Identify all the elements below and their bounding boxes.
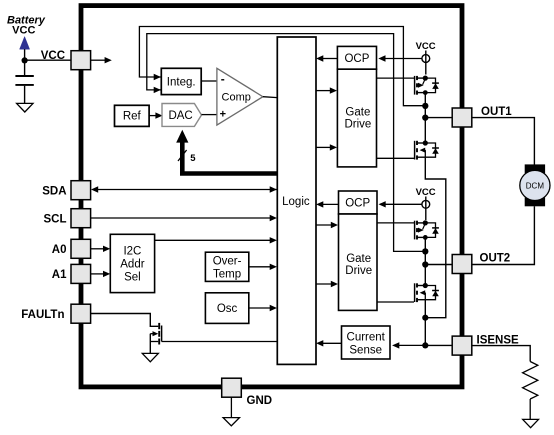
svg-text:Gate: Gate [346, 253, 371, 265]
block Ref [115, 105, 150, 126]
node sense rail junction [422, 315, 428, 321]
svg-text:SCL: SCL [44, 213, 67, 225]
svg-text:SDA: SDA [42, 185, 66, 197]
bus Logic to DAC (thick) [182, 142, 277, 174]
block Integ [161, 68, 201, 94]
motor brush bottom [525, 197, 545, 206]
ground (FAULTn) [142, 353, 158, 361]
ground (battery) [17, 103, 33, 112]
block Logic [277, 37, 316, 364]
pin A1 [71, 264, 91, 283]
node M3 source [423, 235, 428, 240]
wire ISENSE node to pin [425, 344, 452, 346]
svg-text:Sense: Sense [349, 344, 382, 356]
pin A0 [71, 239, 91, 258]
supply arrow (battery VCC) [20, 37, 30, 50]
svg-text:Over-: Over- [213, 255, 242, 267]
wire Q5 body arrow [150, 333, 153, 335]
node OUT2 junction [422, 261, 428, 267]
diode D2 (M2 body) [425, 143, 435, 157]
svg-text:VCC: VCC [416, 41, 436, 52]
svg-text:VCC: VCC [416, 187, 436, 198]
wire Q5 source [150, 341, 158, 343]
arrow into Integ input 2 [154, 87, 161, 93]
svg-text:Sel: Sel [124, 272, 141, 284]
diode D3 (M3 body) [425, 223, 435, 238]
wire to OUT2 pin [425, 264, 452, 266]
arrow into Integ input 1 [154, 74, 161, 80]
arrow Ref to DAC [149, 115, 156, 117]
wire GateDrive1 to M1 gate [377, 77, 415, 79]
wire Comp to Logic [263, 96, 277, 99]
wire GND pin to ground [230, 397, 232, 417]
node A (VCC net junction) [22, 57, 28, 63]
pin OUT1 [452, 108, 472, 127]
svg-text:DCM: DCM [526, 181, 545, 190]
svg-text:OUT1: OUT1 [481, 106, 512, 118]
node M1 drain [423, 76, 428, 81]
wire M1 source to M2 drain [424, 93, 426, 143]
block DAC [162, 104, 202, 127]
svg-text:Drive: Drive [344, 119, 371, 131]
wire A1 to I2C [91, 273, 105, 275]
wire SCL to Logic [91, 217, 271, 219]
node M1 source [423, 90, 428, 95]
transistor M1 (high-side OUT1) [414, 76, 416, 95]
chip boundary [81, 6, 462, 387]
block Osc [205, 293, 248, 324]
block Current Sense [342, 326, 391, 359]
diode D4 (M4 body) [425, 286, 435, 300]
node ISENSE junction [422, 342, 428, 348]
transistor M3 (high-side OUT2) [414, 221, 416, 240]
pin ISENSE [452, 336, 472, 355]
wire DAC to Comp plus [202, 114, 217, 116]
svg-text:Gate: Gate [345, 107, 370, 119]
svg-text:Comp: Comp [222, 92, 251, 104]
wire OverTemp to Logic [249, 266, 271, 268]
svg-text:VCC: VCC [12, 25, 35, 37]
wire to OUT1 pin [425, 117, 452, 119]
ground (GND pin) [223, 418, 239, 426]
block I2C Addr Sel [110, 234, 154, 292]
pin VCC [71, 51, 91, 70]
svg-text:DAC: DAC [168, 110, 192, 122]
arrow Logic to GateDrive2 b [316, 283, 332, 285]
arrow Logic to GateDrive1 b [316, 146, 331, 148]
wire ISENSE node to Current Sense [398, 344, 425, 346]
wire inner feedback loop (OUT2 to Integ) [147, 34, 424, 252]
node OUT1 feedback junction [422, 103, 428, 109]
svg-text:OUT2: OUT2 [480, 252, 511, 264]
supply terminal VCC2 [425, 197, 427, 221]
wire node to capacitor [24, 60, 26, 75]
node M4 drain [423, 283, 428, 288]
svg-text:OCP: OCP [344, 53, 369, 65]
wire GateDrive2 to M4 gate [377, 301, 414, 303]
svg-text:A0: A0 [52, 244, 67, 256]
wire capacitor to ground [24, 86, 26, 104]
wire motor to OUT2 [472, 206, 535, 264]
wire GateDrive1 to M2 gate [377, 157, 415, 159]
wire node to VCC pin [25, 59, 72, 61]
svg-text:GND: GND [247, 395, 273, 407]
pin SDA [71, 181, 91, 200]
node M2 drain [423, 140, 428, 145]
diode D1 (M1 body) [425, 78, 435, 93]
wire outer feedback loop (OUT1 to Integ) [139, 27, 424, 106]
svg-text:Temp: Temp [213, 268, 241, 280]
wire I2C to Logic [155, 239, 271, 241]
node OUT2 feedback junction [422, 248, 428, 254]
wire OCP2 to Logic [322, 203, 339, 205]
capacitor C1 [15, 75, 33, 77]
pin OUT2 [452, 255, 472, 274]
node OUT1 junction [422, 114, 428, 120]
wire Integ to Comp minus [201, 80, 217, 82]
wire M2 source to sense rail [425, 157, 446, 318]
motor DCM [520, 170, 550, 200]
svg-text:Addr: Addr [120, 259, 144, 271]
block OCP2 [339, 191, 378, 214]
wire Osc to Logic [249, 307, 271, 309]
transistor M4 (low-side OUT2) [414, 283, 416, 302]
resistor R1 (sense) [523, 362, 538, 400]
wire resistor to ground [529, 399, 531, 419]
wire OCP1 sense from VCC node [384, 58, 422, 60]
wire A0 to I2C [91, 248, 105, 250]
motor brush top [525, 164, 545, 173]
arrow Logic to GateDrive1 a [316, 90, 331, 92]
svg-text:A1: A1 [52, 269, 67, 281]
wire OUT1 to motor [472, 118, 535, 165]
arrow VCC into chip [91, 59, 106, 61]
svg-text:I2C: I2C [123, 246, 141, 258]
svg-text:Logic: Logic [282, 196, 310, 208]
transistor M2 (low-side OUT1) [414, 141, 416, 160]
wire M3 source to M4 drain [424, 237, 426, 285]
pin FAULTn [71, 304, 91, 323]
transistor Q5 (FAULTn open-drain) [158, 323, 160, 329]
svg-text:-: - [221, 72, 225, 86]
op-amp Comp [217, 68, 263, 125]
arrow Logic to GateDrive2 a [316, 224, 332, 226]
wire ISENSE pin to resistor [472, 346, 530, 362]
svg-text:5: 5 [190, 153, 196, 164]
svg-text:Integ.: Integ. [167, 76, 196, 88]
svg-text:+: + [220, 108, 226, 120]
svg-text:Ref: Ref [123, 111, 142, 123]
wire M4 source to ISENSE node [424, 300, 426, 346]
pin SCL [71, 209, 91, 228]
wire GateDrive2 to M3 gate [377, 222, 414, 224]
supply terminal VCC1 [425, 51, 427, 75]
wire OCP2 sense from VCC node [384, 203, 422, 205]
ground (sense resistor) [523, 419, 539, 427]
bus slash [178, 150, 187, 161]
svg-text:Current: Current [347, 331, 386, 343]
wire OCP1 to Logic [322, 58, 337, 60]
wire Q5 gate to Logic [162, 341, 278, 343]
wire FAULTn to transistor drain [91, 314, 158, 327]
svg-text:Osc: Osc [217, 303, 238, 315]
svg-text:FAULTn: FAULTn [21, 309, 64, 321]
svg-text:OCP: OCP [345, 198, 370, 210]
block Gate Drive 1 [337, 69, 376, 167]
svg-text:Drive: Drive [345, 265, 372, 277]
wire SDA bidirectional [96, 189, 277, 191]
block Over-Temp [205, 252, 248, 281]
wire Current Sense to Logic [322, 342, 342, 344]
arrow bus into DAC [176, 130, 188, 143]
pin GND [222, 378, 242, 397]
node M3 drain [423, 220, 428, 225]
svg-text:ISENSE: ISENSE [477, 334, 520, 346]
block OCP1 [337, 46, 376, 69]
block Gate Drive 2 [339, 214, 378, 310]
svg-text:VCC: VCC [41, 50, 65, 62]
